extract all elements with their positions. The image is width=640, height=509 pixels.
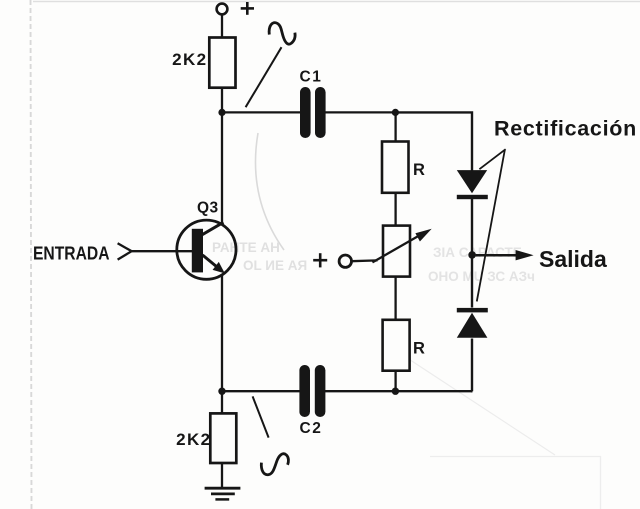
resistor R2 body (upper R) [382, 142, 409, 193]
wire D2 to bottom rail [471, 339, 474, 392]
wire P1 to R3 [394, 277, 396, 320]
diode D2 (bottom, cathode up) [457, 308, 488, 338]
input chevron arrow [118, 243, 132, 259]
wire node D to C2 [222, 390, 301, 392]
svg-text:ENTRADA: ENTRADA [33, 243, 110, 263]
svg-text:R: R [413, 161, 425, 179]
faint bleed-through line artifact lower right [395, 350, 555, 455]
svg-text:2K2: 2K2 [176, 430, 211, 449]
wire R2 to potentiometer P1 [394, 193, 396, 226]
output arrow to Salida [476, 250, 534, 260]
page scan edge (faint top border artifact) [33, 1, 640, 3]
terminal V+ (supply input) [217, 4, 228, 15]
page scan edge (faint left vertical artifact) [31, 0, 32, 509]
capacitor C2 plate right [315, 365, 326, 417]
potentiometer P1 body [383, 226, 410, 277]
svg-text:ОL ИЕ АЯ: ОL ИЕ АЯ [243, 258, 307, 273]
resistor R4 body (2K2 bottom) [210, 413, 236, 463]
leader line from waveform to node A wire [246, 47, 282, 107]
AC waveform symbol (bottom) [261, 454, 288, 475]
faint bleed-through arc artifact [255, 133, 284, 250]
plus sign (control input) [313, 253, 327, 267]
potentiometer P1 wiper arrow [372, 229, 431, 263]
diode D1 (top, anode up) [457, 170, 488, 199]
leader line to D1 [479, 149, 505, 169]
wire node A to C1 [222, 111, 301, 113]
node A junction dot [218, 109, 225, 116]
capacitor C1 plate right [315, 87, 326, 138]
wire node A to Q3 collector [221, 112, 223, 225]
svg-text:РАНТЕ АН: РАНТЕ АН [212, 240, 280, 255]
svg-text:2K2: 2K2 [172, 50, 207, 69]
svg-text:Q3: Q3 [197, 200, 219, 217]
svg-text:Salida: Salida [539, 246, 607, 272]
AC waveform symbol (top) [269, 23, 295, 45]
svg-text:R: R [413, 339, 425, 357]
wire D1 to node E [471, 199, 473, 255]
wire node E to D2 [471, 255, 473, 308]
resistor R3 body (lower R) [383, 320, 410, 371]
wire Q3 emitter down [221, 275, 223, 392]
leader line to D2 [477, 150, 505, 301]
wire R3 to node C [394, 371, 396, 392]
faint bleed-through text artifacts [212, 240, 535, 284]
wire R1 to node A [221, 88, 223, 113]
svg-text:C1: C1 [300, 68, 323, 85]
svg-text:C2: C2 [300, 420, 323, 437]
wire C1 to node B [325, 111, 396, 113]
wire node B down to R2 [394, 112, 396, 142]
wire node D to R4 [221, 391, 223, 413]
plus sign (supply polarity) [241, 2, 254, 15]
capacitor C2 plate left [299, 365, 310, 417]
capacitor C1 plate left [300, 87, 311, 138]
wire input to Q3 base [132, 250, 192, 252]
wire node B to right corner [395, 112, 472, 171]
resistor R1 body (2K2 top) [209, 38, 235, 88]
ground [205, 488, 241, 499]
wire C2 to node C and right corner [325, 390, 472, 392]
wire R4 to ground [221, 463, 223, 488]
svg-text:Rectificación: Rectificación [494, 117, 637, 141]
svg-text:ЗІА САРАСТЕ: ЗІА САРАСТЕ [433, 245, 522, 260]
node D junction dot (emitter/bottom rail) [218, 388, 225, 395]
terminal control + input circle [339, 255, 351, 267]
transistor Q3 [177, 220, 236, 279]
node E junction dot (Salida) [468, 251, 476, 259]
faint ghost frame line artifact bottom right [430, 456, 601, 458]
node B junction dot [392, 109, 399, 116]
node C junction dot [392, 388, 399, 395]
wire control terminal to wiper [352, 259, 378, 262]
leader line from waveform to bottom rail [253, 396, 269, 437]
wire terminal to R1 [221, 14, 223, 37]
